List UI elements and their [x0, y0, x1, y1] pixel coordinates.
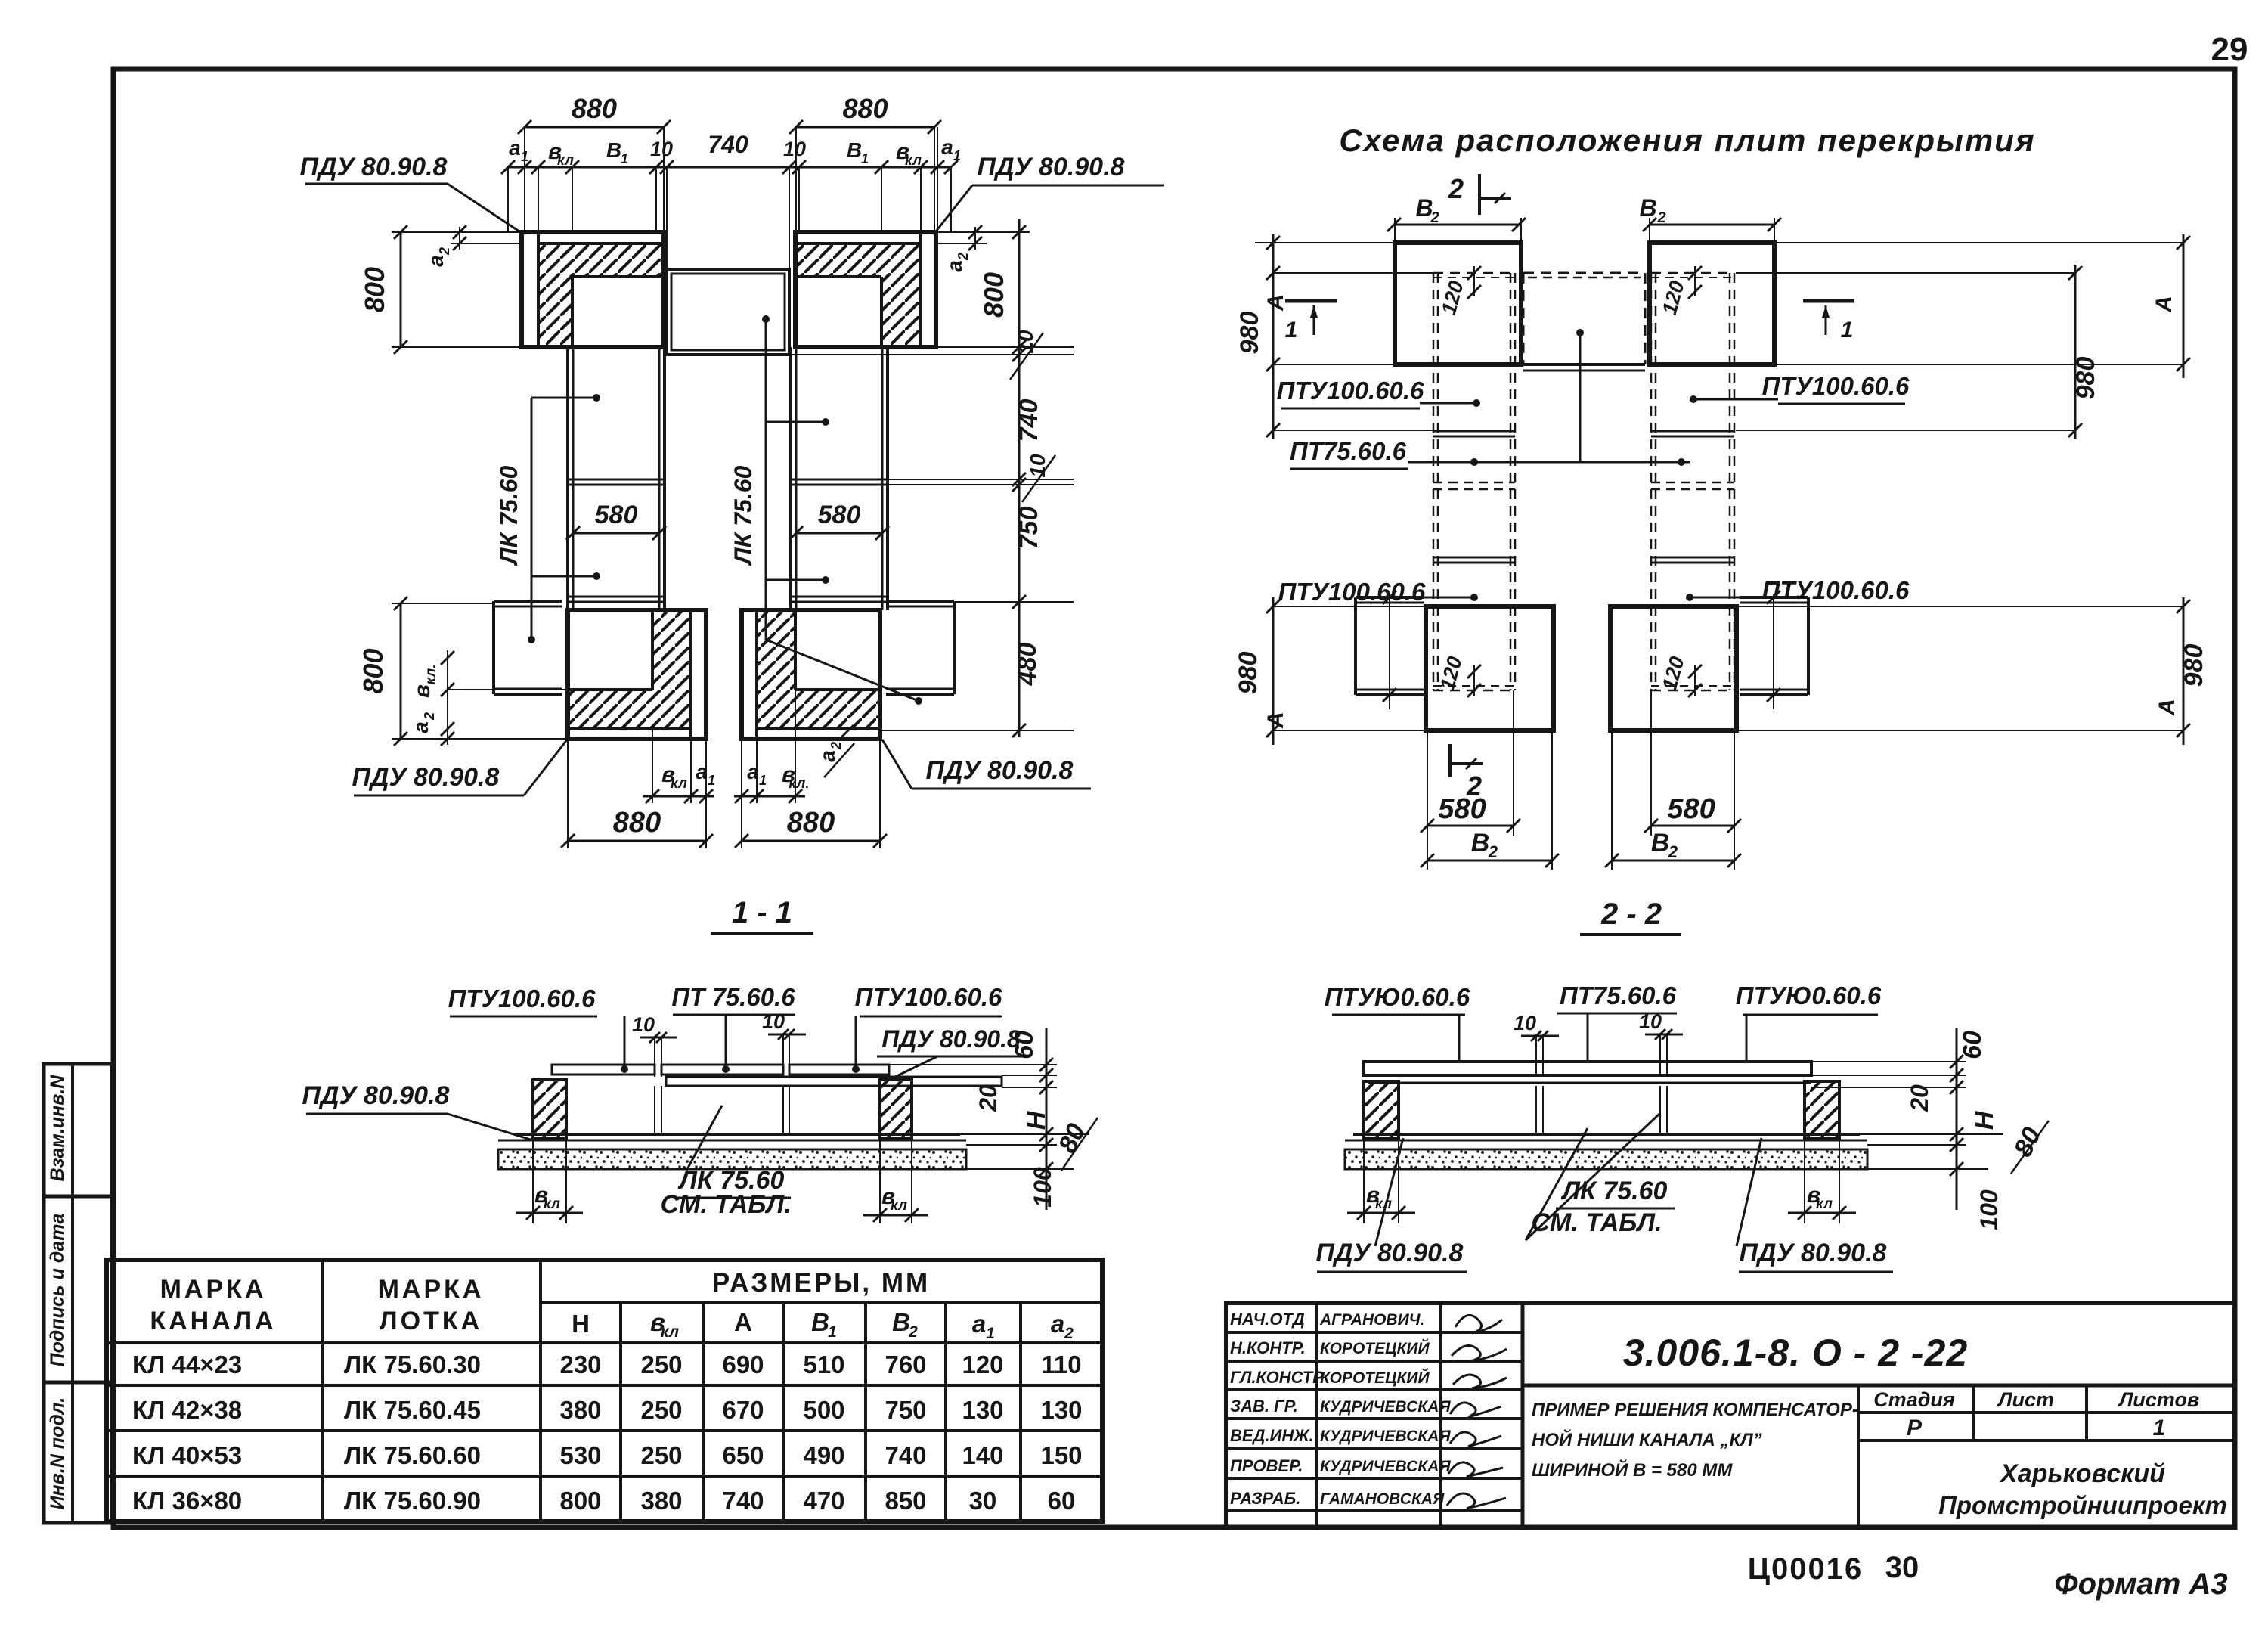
plan left dim 800 top: [392, 231, 522, 233]
svg-text:740: 740: [885, 1441, 926, 1469]
scheme: niche column right dashed outline: [1650, 273, 1653, 690]
svg-text:60: 60: [1958, 1031, 1987, 1059]
svg-text:230: 230: [559, 1351, 601, 1378]
scheme: dim B2 bottom-left: [1551, 730, 1553, 870]
svg-text:ЛК 75.60.90: ЛК 75.60.90: [344, 1487, 481, 1515]
svg-text:530: 530: [559, 1441, 601, 1469]
svg-text:100: 100: [1975, 1189, 2003, 1230]
svg-text:В: В: [1651, 829, 1670, 857]
svg-text:880: 880: [787, 807, 835, 839]
svg-text:a: a: [424, 255, 448, 267]
section 2-2 channel floor: [1353, 1133, 1860, 1136]
plan: extension lines above plates: [524, 127, 525, 232]
svg-text:ШИРИНОЙ В = 580 ММ: ШИРИНОЙ В = 580 ММ: [1532, 1459, 1733, 1481]
svg-text:a: a: [972, 1310, 986, 1338]
channel right dim 580: [796, 532, 882, 535]
scheme: central plate dashed (PT): [1523, 272, 1645, 274]
scheme: dim B2 bottom-right: [1611, 730, 1613, 870]
svg-text:Н: Н: [1970, 1110, 1999, 1130]
svg-text:2: 2: [1430, 209, 1439, 226]
section 1-1 wall block left hatched: [533, 1080, 566, 1139]
plan: top dim line 880 right: [796, 126, 934, 129]
svg-text:150: 150: [1040, 1441, 1082, 1469]
svg-text:АГРАНОВИЧ.: АГРАНОВИЧ.: [1319, 1311, 1424, 1329]
svg-text:РАЗРАБ.: РАЗРАБ.: [1230, 1489, 1300, 1508]
svg-text:ПДУ 80.90.8: ПДУ 80.90.8: [978, 153, 1125, 181]
svg-text:А: А: [1263, 712, 1288, 729]
svg-text:В: В: [892, 1308, 910, 1336]
svg-text:470: 470: [803, 1487, 844, 1515]
svg-text:кл: кл: [891, 1198, 907, 1214]
svg-text:980: 980: [1235, 312, 1264, 355]
svg-text:100: 100: [1029, 1167, 1056, 1208]
svg-text:10: 10: [632, 1013, 655, 1036]
section 2-2 wall block left hatched: [1364, 1081, 1399, 1139]
svg-text:А: А: [734, 1308, 752, 1336]
svg-text:кл: кл: [661, 1323, 679, 1341]
adjacent channel box far-right: [886, 600, 954, 603]
svg-text:a: a: [509, 136, 521, 160]
svg-text:800: 800: [978, 272, 1009, 318]
svg-text:740: 740: [708, 131, 748, 158]
svg-text:КОРОТЕЦКИЙ: КОРОТЕЦКИЙ: [1320, 1369, 1430, 1387]
svg-text:ПТ 75.60.6: ПТ 75.60.6: [671, 983, 795, 1011]
svg-text:2: 2: [1668, 842, 1678, 861]
svg-text:500: 500: [803, 1396, 844, 1424]
scheme: dim 120 bottom-left: [1473, 665, 1475, 696]
svg-text:670: 670: [722, 1396, 764, 1424]
svg-text:1: 1: [708, 773, 715, 788]
svg-text:в: в: [410, 684, 435, 698]
svg-text:580: 580: [818, 501, 861, 529]
svg-text:ГЛ.КОНСТР: ГЛ.КОНСТР: [1230, 1368, 1324, 1387]
svg-text:кл: кл: [544, 1196, 560, 1212]
section 1-1 channel floor: [514, 1133, 960, 1136]
svg-text:кл: кл: [1816, 1196, 1833, 1212]
svg-text:a: a: [409, 721, 432, 733]
svg-text:В: В: [1471, 829, 1490, 857]
svg-text:140: 140: [962, 1441, 1003, 1469]
svg-text:a: a: [747, 760, 759, 783]
svg-text:Ц00016: Ц00016: [1748, 1552, 1863, 1586]
svg-text:850: 850: [885, 1487, 926, 1515]
svg-text:10: 10: [1026, 454, 1049, 478]
svg-text:2: 2: [1656, 209, 1665, 226]
svg-text:Н: Н: [572, 1310, 590, 1338]
plan bottom-left dims vkl a2: [448, 689, 568, 690]
scheme: dim 980 top-right: [2074, 265, 2077, 439]
section 2-2 right dim stack 60/20/H/80/100: [1811, 1061, 1966, 1062]
svg-text:КЛ 42×38: КЛ 42×38: [132, 1396, 242, 1424]
svg-text:ПТУ100.60.6: ПТУ100.60.6: [448, 985, 596, 1013]
svg-text:650: 650: [722, 1441, 764, 1469]
svg-text:ПТУ100.60.6: ПТУ100.60.6: [1278, 578, 1426, 606]
central cover plate between top plates: [667, 269, 789, 355]
section 2-2 wall block right hatched: [1805, 1081, 1839, 1139]
svg-text:1: 1: [2153, 1416, 2166, 1440]
svg-text:ПДУ 80.90.8: ПДУ 80.90.8: [300, 153, 448, 181]
scheme: dim 980+A top-left: [1272, 234, 1275, 439]
scheme: section mark 1 left: [1285, 299, 1337, 303]
scheme: dim 980+A bottom-left: [1272, 597, 1275, 745]
svg-text:800: 800: [559, 1487, 601, 1515]
svg-text:ПТУЮ0.60.6: ПТУЮ0.60.6: [1736, 982, 1882, 1009]
svg-text:10: 10: [762, 1010, 785, 1033]
svg-text:ПТУ100.60.6: ПТУ100.60.6: [1277, 377, 1424, 405]
svg-text:НАЧ.ОТД: НАЧ.ОТД: [1230, 1310, 1305, 1329]
svg-text:В: В: [606, 138, 621, 162]
section 1-1 slabs PTU top: [552, 1065, 655, 1075]
svg-text:СМ. ТАБЛ.: СМ. ТАБЛ.: [1531, 1208, 1662, 1237]
channel KL left walls: [566, 347, 569, 610]
svg-text:Инв.N подл.: Инв.N подл.: [47, 1397, 68, 1510]
section 2-2 callout LK 75.60 / see table: [1526, 1128, 1588, 1240]
section 1-1 dim vkl right: [879, 1140, 881, 1223]
svg-text:580: 580: [595, 501, 638, 529]
plan bottom dims vkl a1 left plate: [652, 729, 653, 803]
svg-text:Листов: Листов: [2118, 1388, 2200, 1411]
svg-text:Промстройниипроект: Промстройниипроект: [1938, 1491, 2227, 1519]
svg-text:А: А: [2152, 296, 2177, 313]
svg-text:a: a: [696, 760, 708, 783]
section 1-1 right dim stack 60/20/H/80/100: [889, 1064, 1057, 1065]
svg-text:ЗАВ. ГР.: ЗАВ. ГР.: [1230, 1397, 1298, 1416]
channel KL left joints: [568, 479, 665, 481]
svg-text:РАЗМЕРЫ, ММ: РАЗМЕРЫ, ММ: [712, 1268, 930, 1298]
svg-text:490: 490: [803, 1441, 844, 1469]
section 2-2 slab bar: [1364, 1062, 1811, 1075]
svg-text:380: 380: [640, 1487, 682, 1515]
svg-text:ПТУ100.60.6: ПТУ100.60.6: [855, 983, 1002, 1011]
svg-text:ПТ75.60.6: ПТ75.60.6: [1290, 437, 1407, 465]
svg-text:510: 510: [803, 1351, 844, 1378]
svg-text:ПРОВЕР.: ПРОВЕР.: [1230, 1456, 1303, 1475]
plan bottom dim 880 left: [567, 739, 569, 848]
svg-text:480: 480: [1013, 643, 1042, 687]
svg-text:Н: Н: [1022, 1110, 1051, 1130]
svg-text:ЛК 75.60: ЛК 75.60: [1560, 1177, 1668, 1205]
svg-text:Харьковский: Харьковский: [1999, 1459, 2165, 1488]
svg-text:2: 2: [1064, 1325, 1074, 1342]
svg-text:10: 10: [1514, 1012, 1536, 1034]
svg-text:a: a: [943, 260, 966, 272]
svg-text:МАРКА: МАРКА: [378, 1275, 485, 1304]
svg-text:1: 1: [621, 151, 628, 166]
scheme: top slab plate right (PTU): [1650, 243, 1774, 364]
svg-text:980: 980: [1234, 652, 1263, 695]
scheme: dim 120 bottom-right: [1694, 665, 1696, 696]
svg-text:20: 20: [1906, 1084, 1933, 1112]
svg-text:10: 10: [1639, 1010, 1662, 1033]
left margin stamp boxes: [44, 1064, 112, 1523]
title block outer border: [1226, 1303, 2235, 1527]
scheme: B2 dim left: [1394, 218, 1396, 243]
scheme: niche column right joints: [1651, 430, 1734, 433]
plan right dims 800/10/740/10/750/480: [936, 231, 1030, 233]
svg-text:ПДУ 80.90.8: ПДУ 80.90.8: [1316, 1239, 1464, 1267]
svg-text:250: 250: [640, 1351, 682, 1378]
svg-text:30: 30: [969, 1487, 997, 1515]
plate PDU 80.90.8 bottom-right: [742, 610, 880, 739]
svg-text:ПДУ 80.90.8: ПДУ 80.90.8: [1740, 1239, 1887, 1267]
section 1-1 base slab stippled: [498, 1149, 966, 1169]
channel KL right joints: [791, 479, 888, 481]
title block signatures: [1447, 1315, 1507, 1509]
svg-text:750: 750: [1015, 507, 1043, 550]
svg-text:ПДУ 80.90.8: ПДУ 80.90.8: [352, 763, 500, 792]
title block horizontal lines left part: [1226, 1331, 1523, 1334]
svg-text:НОЙ НИШИ КАНАЛА „КЛ”: НОЙ НИШИ КАНАЛА „КЛ”: [1532, 1428, 1762, 1450]
scheme: niche column left joints: [1433, 430, 1515, 433]
plan: second dim line a1-vkl-B1-10-740-10-B1-vkl-a1: [508, 166, 951, 169]
svg-text:ПТУ100.60.6: ПТУ100.60.6: [1762, 576, 1910, 604]
svg-text:кл.: кл.: [423, 664, 439, 684]
svg-text:Формат А3: Формат А3: [2054, 1568, 2227, 1601]
section 2-2 dim vkl left: [1363, 1140, 1365, 1223]
svg-text:1: 1: [759, 773, 767, 788]
svg-text:60: 60: [1048, 1487, 1076, 1515]
svg-text:1: 1: [1285, 318, 1298, 343]
svg-text:880: 880: [572, 93, 617, 124]
svg-text:110: 110: [1041, 1351, 1081, 1378]
plate PDU 80.90.8 top-left: [522, 232, 664, 347]
table of sizes outer border: [107, 1260, 1102, 1521]
scheme: bottom extension lines: [1273, 606, 1426, 607]
svg-text:кл: кл: [905, 153, 922, 169]
svg-text:Схема расположения плит пе: Схема расположения плит перекрытия: [1339, 122, 2035, 158]
section 1-1 callout LK 75.60 / see table: [686, 1106, 722, 1171]
svg-text:Лист: Лист: [1997, 1388, 2054, 1411]
svg-text:КЛ 40×53: КЛ 40×53: [132, 1441, 242, 1469]
svg-text:3.006.1-8. О - 2 -22: 3.006.1-8. О - 2 -22: [1623, 1332, 1968, 1374]
svg-text:a: a: [816, 750, 839, 762]
svg-text:кл.: кл.: [789, 776, 809, 792]
svg-text:760: 760: [885, 1351, 926, 1378]
svg-text:10: 10: [1014, 330, 1037, 354]
scheme: section mark 1 right: [1803, 299, 1854, 303]
svg-text:Р: Р: [1907, 1416, 1923, 1440]
svg-text:КУДРИЧЕВСКАЯ: КУДРИЧЕВСКАЯ: [1320, 1458, 1451, 1475]
svg-text:ПТУ100.60.6: ПТУ100.60.6: [1762, 372, 1910, 400]
svg-text:880: 880: [842, 93, 888, 124]
svg-text:ЛК 75.60: ЛК 75.60: [495, 465, 522, 566]
scheme: bottom plate solid right: [1610, 606, 1737, 730]
svg-text:ЛОТКА: ЛОТКА: [380, 1307, 482, 1335]
svg-text:2: 2: [437, 247, 452, 256]
svg-text:В: В: [847, 138, 862, 162]
svg-text:МАРКА: МАРКА: [160, 1275, 267, 1304]
section 1-1 joint lines in channel: [654, 1086, 655, 1134]
svg-text:10: 10: [783, 138, 806, 160]
svg-text:ЛК 75.60.60: ЛК 75.60.60: [344, 1441, 481, 1469]
svg-text:120: 120: [962, 1351, 1003, 1378]
svg-text:2: 2: [1448, 173, 1464, 204]
section 1-1 gap dims 10: [654, 1036, 655, 1077]
svg-text:690: 690: [722, 1351, 764, 1378]
svg-text:СМ. ТАБЛ.: СМ. ТАБЛ.: [660, 1190, 791, 1219]
section 2-2 dim vkl right: [1804, 1140, 1805, 1223]
svg-text:20: 20: [974, 1084, 1002, 1112]
svg-text:60: 60: [1010, 1031, 1039, 1059]
svg-text:800: 800: [359, 267, 390, 312]
plan bottom-left dim 800: [392, 603, 494, 604]
svg-text:740: 740: [722, 1487, 764, 1515]
svg-text:880: 880: [613, 807, 661, 839]
svg-text:кл: кл: [671, 776, 687, 792]
svg-text:Н.КОНТР.: Н.КОНТР.: [1230, 1338, 1306, 1357]
svg-text:980: 980: [2180, 644, 2208, 687]
svg-text:ПРИМЕР РЕШЕНИЯ КОМПЕНСАТОР-: ПРИМЕР РЕШЕНИЯ КОМПЕНСАТОР-: [1532, 1400, 1858, 1420]
scheme: niche column left dashed outline: [1433, 273, 1435, 690]
svg-text:А: А: [1263, 294, 1288, 312]
svg-text:КУДРИЧЕВСКАЯ: КУДРИЧЕВСКАЯ: [1320, 1428, 1451, 1445]
svg-text:1: 1: [828, 1323, 837, 1341]
channel left dim 580: [573, 532, 659, 535]
svg-text:КЛ 44×23: КЛ 44×23: [132, 1351, 242, 1378]
section 2-2 slab lower line: [1368, 1082, 1811, 1084]
section 1-1 slab PDU lower: [666, 1077, 1002, 1086]
svg-text:130: 130: [962, 1396, 1003, 1424]
svg-text:29: 29: [2211, 31, 2248, 68]
svg-text:Стадия: Стадия: [1873, 1388, 1955, 1411]
scheme: small outer plate bottom-left: [1356, 596, 1424, 599]
svg-text:ВЕД.ИНЖ.: ВЕД.ИНЖ.: [1230, 1426, 1314, 1445]
plan bottom dim 880 right: [741, 739, 742, 848]
svg-text:2: 2: [829, 742, 844, 750]
plan left dim a2 top: [451, 243, 522, 244]
svg-text:2: 2: [956, 253, 971, 261]
plan bottom dims a1 vkl right plate: [756, 739, 758, 803]
svg-text:380: 380: [559, 1396, 601, 1424]
svg-text:1: 1: [986, 1325, 995, 1342]
plan: top dim line 880 left: [525, 126, 664, 129]
title block horizontal lines right part: [1523, 1384, 2235, 1388]
svg-text:2: 2: [1488, 842, 1498, 861]
svg-text:580: 580: [1667, 793, 1715, 825]
svg-text:КЛ 36×80: КЛ 36×80: [132, 1487, 242, 1515]
svg-text:10: 10: [650, 138, 673, 160]
section 1-1 wall block right hatched: [880, 1080, 912, 1139]
scheme: top slab plate left (PTU): [1395, 243, 1521, 364]
svg-text:КАНАЛА: КАНАЛА: [150, 1307, 276, 1335]
svg-text:ПТ75.60.6: ПТ75.60.6: [1560, 982, 1677, 1009]
svg-text:Подпись и дата: Подпись и дата: [47, 1214, 68, 1367]
svg-text:1: 1: [1841, 318, 1854, 343]
svg-text:КОРОТЕЦКИЙ: КОРОТЕЦКИЙ: [1320, 1339, 1430, 1357]
plate PDU 80.90.8 bottom-left: [568, 610, 706, 739]
section 2-2 gap dims 10: [1535, 1034, 1537, 1075]
scheme: top extension lines: [1255, 242, 1395, 243]
svg-text:В: В: [811, 1308, 829, 1336]
svg-text:250: 250: [640, 1441, 682, 1469]
svg-text:ПТУЮ0.60.6: ПТУЮ0.60.6: [1325, 983, 1470, 1011]
svg-text:750: 750: [885, 1396, 926, 1424]
plate PDU 80.90.8 top-right: [795, 232, 936, 347]
svg-text:740: 740: [1015, 399, 1043, 442]
section 2-2 base slab stippled: [1345, 1149, 1867, 1169]
svg-text:130: 130: [1040, 1396, 1082, 1424]
svg-text:ЛК 75.60: ЛК 75.60: [730, 465, 757, 566]
svg-text:30: 30: [1885, 1551, 1919, 1584]
scheme: small outer plate bottom-right: [1740, 596, 1808, 599]
svg-text:кл: кл: [557, 153, 574, 169]
svg-text:КУДРИЧЕВСКАЯ: КУДРИЧЕВСКАЯ: [1320, 1398, 1451, 1416]
title block vertical lines: [1315, 1303, 1318, 1527]
svg-text:ЛК 75.60.45: ЛК 75.60.45: [344, 1396, 481, 1424]
svg-text:ГАМАНОВСКАЯ: ГАМАНОВСКАЯ: [1320, 1490, 1445, 1508]
section 2-2 joint lines in channel: [1535, 1086, 1537, 1134]
scheme: dim 980+A bottom-right: [2183, 597, 2185, 745]
scheme: B2 dim right: [1649, 218, 1650, 243]
svg-text:Взам.инв.N: Взам.инв.N: [47, 1075, 68, 1182]
adjacent channel box far-left: [494, 600, 562, 603]
table vertical lines: [321, 1260, 324, 1521]
scheme: dim 580 bottom-left: [1427, 730, 1428, 870]
svg-text:a: a: [1051, 1310, 1064, 1338]
svg-text:ПДУ 80.90.8: ПДУ 80.90.8: [926, 756, 1074, 785]
svg-text:250: 250: [640, 1396, 682, 1424]
svg-text:1: 1: [861, 151, 869, 166]
plan right dim a2 top: [936, 243, 987, 244]
scheme: dim 580 bottom-right: [1650, 690, 1652, 836]
svg-text:800: 800: [358, 648, 389, 693]
svg-text:ПДУ 80.90.8: ПДУ 80.90.8: [302, 1081, 450, 1110]
scheme: dim 120 top-right: [1694, 266, 1696, 296]
svg-text:2: 2: [422, 712, 437, 721]
svg-text:А: А: [2155, 699, 2180, 716]
svg-text:980: 980: [2071, 357, 2100, 400]
scheme: bottom plate solid left: [1426, 606, 1554, 730]
section 1-1 dim vkl left: [532, 1140, 534, 1223]
svg-text:1 - 1: 1 - 1: [732, 896, 792, 929]
scheme: dim A top-right: [1905, 242, 2183, 243]
svg-text:В: В: [1639, 194, 1656, 222]
svg-text:ПДУ 80.90.8: ПДУ 80.90.8: [881, 1025, 1021, 1053]
table horizontal lines: [541, 1301, 1102, 1304]
channel KL right walls: [789, 347, 792, 610]
svg-text:2: 2: [908, 1323, 918, 1341]
scheme: dim 120 top-left: [1473, 266, 1475, 296]
svg-text:1: 1: [953, 148, 961, 163]
svg-text:a: a: [941, 135, 953, 159]
svg-text:580: 580: [1438, 793, 1486, 825]
scheme: section mark 2 bottom: [1448, 744, 1452, 777]
svg-text:2 - 2: 2 - 2: [1600, 898, 1662, 931]
svg-text:ЛК 75.60.30: ЛК 75.60.30: [344, 1351, 481, 1378]
